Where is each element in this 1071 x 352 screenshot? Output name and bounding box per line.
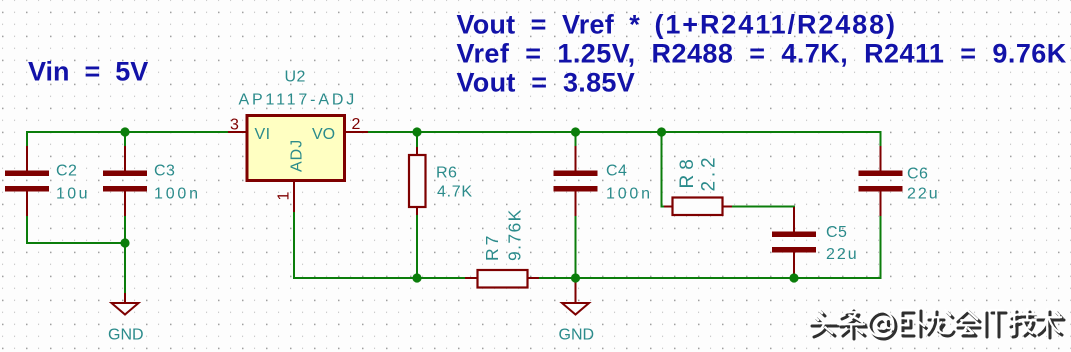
wire R8 branch: [662, 132, 665, 207]
svg-text:Vref = 1.25V, R2488 = 4.7: Vref = 1.25V, R2488 = 4.7K, R2411 = 9.76…: [457, 39, 1067, 69]
svg-text:100n: 100n: [154, 186, 201, 203]
wire C4 bottom lead: [575, 216, 577, 278]
wire C3 top branch: [124, 132, 126, 146]
wire C4 top lead: [575, 132, 577, 146]
pin 1 (ADJ): [293, 181, 295, 213]
wire R8 to C5: [732, 206, 794, 209]
ground GND2: [559, 278, 595, 344]
junction node (417,278): [412, 273, 421, 282]
svg-text:R8: R8: [677, 154, 698, 188]
pin 3: [228, 131, 247, 133]
svg-text:100n: 100n: [606, 186, 653, 203]
junction node (417,132): [412, 127, 421, 136]
junction node (661.5,132): [657, 127, 666, 136]
svg-text:C6: C6: [907, 166, 928, 183]
svg-text:1: 1: [276, 192, 293, 201]
svg-text:2: 2: [352, 116, 361, 133]
svg-text:GND: GND: [108, 327, 144, 344]
wire C5 bottom lead: [793, 277, 795, 278]
junction node (575.5,278): [571, 273, 580, 282]
capacitor C4: [554, 146, 598, 216]
svg-text:AP1117-ADJ: AP1117-ADJ: [239, 92, 358, 109]
wire R6 bottom lead: [416, 215, 418, 278]
capacitor C3: [103, 146, 147, 216]
ground GND1: [108, 293, 144, 344]
wire bottom rail R7 to C6: [539, 216, 881, 278]
junction node (794,278): [789, 273, 798, 282]
junction node (125,132): [120, 127, 129, 136]
svg-text:4.7K: 4.7K: [437, 184, 473, 201]
capacitor C5: [772, 207, 816, 277]
junction node (575.5,132): [571, 127, 580, 136]
svg-text:C5: C5: [826, 224, 847, 241]
svg-text:Vout = 3.85V: Vout = 3.85V: [457, 68, 636, 98]
svg-text:22u: 22u: [826, 246, 859, 263]
wire C2/C3 bottom to GND1: [27, 216, 125, 293]
svg-text:R6: R6: [436, 165, 457, 182]
resistor R7: [478, 270, 528, 288]
svg-text:10u: 10u: [56, 186, 90, 203]
svg-text:R7: R7: [482, 233, 502, 261]
wire R6 top lead: [416, 132, 418, 147]
svg-text:U2: U2: [285, 69, 306, 86]
svg-text:C4: C4: [606, 163, 627, 180]
pin 2: [345, 131, 369, 133]
svg-text:22u: 22u: [907, 186, 940, 203]
svg-text:2.2: 2.2: [699, 154, 720, 192]
svg-text:Vin = 5V: Vin = 5V: [28, 57, 148, 87]
capacitor C6: [859, 146, 903, 216]
wire top rail left (C2 corner to U2 pin3): [27, 132, 228, 171]
IC U2 AP1117-ADJ: [239, 69, 358, 181]
svg-text:C2: C2: [56, 163, 77, 180]
resistor R8: [673, 198, 723, 216]
svg-text:VO: VO: [312, 126, 335, 143]
capacitor C2: [5, 146, 49, 216]
svg-text:(1+R2411/R2488): (1+R2411/R2488): [655, 10, 897, 40]
svg-text:C3: C3: [154, 163, 175, 180]
junction node (125,243): [120, 238, 129, 247]
svg-text:3: 3: [230, 117, 239, 134]
wire ADJ down and bottom rail: [294, 212, 465, 278]
resistor R6: [409, 155, 426, 207]
svg-text:9.76K: 9.76K: [505, 208, 525, 261]
wire top rail right (U2 pin2 to C6): [368, 132, 881, 146]
svg-text:GND: GND: [559, 327, 595, 344]
svg-text:Vout = Vref *: Vout = Vref *: [457, 10, 641, 40]
svg-text:VI: VI: [255, 126, 271, 143]
svg-text:ADJ: ADJ: [289, 139, 306, 172]
